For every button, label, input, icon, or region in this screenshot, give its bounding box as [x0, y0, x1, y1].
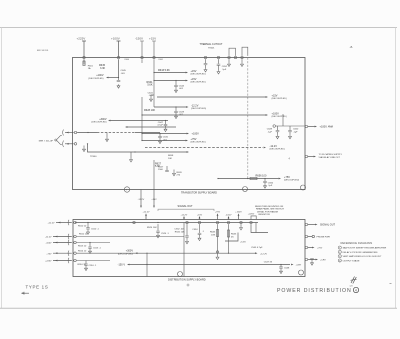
svg-text:POWER DISTRIBUTION: POWER DISTRIBUTION	[277, 288, 352, 294]
circled node on bottom edge	[243, 187, 248, 192]
svg-text:1500: 1500	[158, 169, 164, 171]
svg-text:C649: C649	[267, 129, 273, 131]
svg-text:TRANSISTOR SUPPLY BOARD: TRANSISTOR SUPPLY BOARD	[181, 191, 217, 194]
svg-text:C631: C631	[163, 137, 169, 139]
dashed feeder line (vertical)	[247, 58, 249, 179]
wire +100V row 5 (long)	[142, 114, 266, 116]
svg-text:R524 10K: R524 10K	[147, 227, 157, 229]
svg-text:+12.2V: +12.2V	[260, 253, 268, 255]
connector pin circle	[55, 139, 57, 141]
svg-text:C545 4.7µF: C545 4.7µF	[251, 247, 263, 249]
svg-text:+300V: +300V	[126, 250, 134, 253]
svg-text:+12.2V: +12.2V	[143, 212, 151, 214]
resistor R656	[250, 177, 257, 179]
svg-text:R510 10: R510 10	[78, 226, 87, 228]
svg-text:+75V: +75V	[46, 253, 52, 255]
svg-text:+75V: +75V	[317, 248, 323, 250]
svg-text:10K: 10K	[168, 158, 172, 160]
junction on -150V rail	[141, 56, 144, 59]
group bracket line	[158, 209, 214, 211]
svg-text:+150V: +150V	[235, 212, 242, 214]
svg-text:(DECOUPLED): (DECOUPLED)	[191, 74, 206, 76]
capacitor C645	[118, 77, 119, 78]
svg-text:+5.6V: +5.6V	[240, 242, 246, 244]
circled node at lower box corner	[299, 270, 304, 275]
wire arrow to CRT	[291, 264, 293, 266]
page left edge	[1, 28, 3, 309]
bracket B	[62, 141, 65, 148]
svg-text:+CRT: +CRT	[320, 260, 326, 262]
wire +15V row 2	[154, 80, 186, 82]
wire rail into lower stubs	[153, 160, 155, 190]
svg-text:3.3K: 3.3K	[100, 67, 105, 70]
ground stub on rail 2	[240, 224, 242, 226]
capacitor C532 with ground	[186, 224, 188, 236]
wire into pin B	[65, 143, 74, 145]
svg-text:+225V: +225V	[248, 214, 255, 216]
pin +225V on lower left edge	[53, 260, 72, 262]
pin A	[74, 131, 77, 134]
ground stub B	[241, 59, 243, 62]
wire +300V row 6 (to left)	[110, 120, 168, 122]
svg-text:R641: R641	[159, 59, 164, 61]
svg-text:R543: R543	[231, 234, 237, 236]
wire bus B	[88, 144, 188, 152]
svg-text:-8-: -8-	[350, 45, 354, 49]
svg-text:OUTPUT STAGE: OUTPUT STAGE	[343, 259, 360, 262]
svg-text:C524 .1: C524 .1	[161, 233, 169, 235]
svg-text:+100V, 4MA: +100V, 4MA	[320, 126, 334, 129]
svg-text:C656: C656	[268, 182, 274, 184]
pin probe power on lower right edge	[305, 235, 308, 238]
svg-text:+15V: +15V	[197, 214, 203, 216]
jumper loop 1	[229, 48, 236, 56]
svg-text:+15V: +15V	[151, 199, 157, 201]
svg-text:C534: C534	[192, 229, 198, 231]
svg-text:R656 100: R656 100	[256, 175, 267, 178]
capacitor C516 with ground	[77, 260, 110, 262]
svg-text:RESISTORS MOUNTED ON: RESISTORS MOUNTED ON	[255, 206, 284, 208]
note item 3	[338, 255, 341, 258]
right margin tick	[390, 283, 392, 285]
svg-text:(DECOUPLED): (DECOUPLED)	[91, 122, 106, 124]
svg-text:VIA DELAY LINE CKT: VIA DELAY LINE CKT	[319, 156, 341, 159]
svg-text:TK601: TK601	[208, 48, 215, 50]
svg-text:+12.2V: +12.2V	[48, 223, 56, 225]
svg-text:DETAIL FOR RANGE: DETAIL FOR RANGE	[257, 210, 279, 213]
node -150V supply rail	[140, 41, 144, 141]
capacitor C534 with ground	[199, 224, 201, 233]
svg-text:EFF SN 101: EFF SN 101	[37, 50, 49, 52]
wire stub +15V below edge	[153, 190, 155, 207]
ground symbol on bottom edge (circled)	[124, 187, 129, 192]
ground cluster inner left	[83, 146, 85, 148]
note item 1	[338, 246, 341, 249]
svg-text:R532 10K: R532 10K	[175, 231, 185, 233]
svg-text:R512 10: R512 10	[79, 234, 88, 236]
capacitor C644 with ground	[175, 80, 176, 81]
pin B	[74, 143, 77, 146]
svg-text:R628 10K: R628 10K	[144, 109, 155, 112]
capacitor C631 with ground	[159, 133, 160, 134]
svg-text:R658: R658	[168, 155, 174, 157]
wire +15V row 1	[154, 72, 186, 74]
capacitor C647 with ground	[165, 120, 166, 121]
resistor R512 wire	[77, 236, 184, 238]
wire R656 row	[218, 178, 279, 180]
pin -100V on lower left edge	[53, 242, 72, 244]
pin SIGNAL OUT on lower right edge	[305, 223, 308, 226]
wire +12.2V mid row	[137, 252, 256, 254]
svg-text:-150 V: -150 V	[118, 264, 126, 267]
svg-text:(DECOUPLED): (DECOUPLED)	[118, 253, 133, 255]
junction on bus A	[87, 132, 88, 133]
svg-text:THERMAL CUTOUT: THERMAL CUTOUT	[200, 43, 223, 46]
pin +100V on right edge	[305, 125, 308, 128]
capacitor C651 with ground	[205, 59, 207, 63]
bracket A	[62, 130, 65, 136]
svg-text:.1µF: .1µF	[268, 185, 273, 187]
svg-text:C547 33: C547 33	[264, 262, 273, 264]
ground near C627	[173, 170, 175, 172]
svg-text:REFERENCE DIAGRAMS: REFERENCE DIAGRAMS	[341, 241, 373, 245]
svg-text:C647: C647	[158, 122, 164, 124]
svg-text:+100V: +100V	[111, 37, 120, 41]
svg-text:+75V: +75V	[284, 176, 290, 179]
resistor R545 with ground	[217, 224, 219, 255]
svg-text:F601: F601	[88, 65, 94, 67]
svg-text:+300V: +300V	[99, 118, 107, 121]
capacitor C548 with ground	[280, 264, 281, 265]
pin to floating supply on right edge	[305, 155, 308, 158]
wire -12.2V row 4	[154, 106, 187, 108]
svg-text:SIGNAL OUT: SIGNAL OUT	[178, 205, 194, 208]
wire stub -12.2V below edge	[140, 190, 142, 207]
wire bus A	[77, 132, 97, 134]
svg-text:+15V: +15V	[149, 37, 156, 41]
svg-text:R513 10: R513 10	[78, 246, 87, 248]
svg-text:C627: C627	[158, 167, 164, 169]
jumper loop on lower box edge	[251, 216, 256, 219]
svg-text:R640: R640	[125, 59, 130, 61]
svg-text:-100V: -100V	[226, 214, 232, 216]
svg-text:(DECOUPLED): (DECOUPLED)	[270, 149, 285, 151]
svg-text:+100V: +100V	[192, 133, 200, 136]
wire pin to row	[77, 252, 137, 254]
svg-text:-12.2V: -12.2V	[138, 199, 145, 201]
wire +75V row 9	[142, 140, 186, 142]
svg-text:(DECOUPLED): (DECOUPLED)	[272, 116, 287, 118]
wire bus A dashed section	[97, 132, 135, 134]
pin +12.2V on lower left edge	[56, 222, 72, 224]
wire vertical V1	[146, 253, 148, 276]
svg-text:+15V: +15V	[191, 78, 197, 81]
page right edge	[395, 28, 397, 309]
pin -12.2V on lower left edge	[53, 236, 72, 238]
note item 4	[338, 259, 341, 262]
svg-text:-12.2V: -12.2V	[270, 145, 278, 148]
wire branch vertical	[255, 223, 257, 233]
wire +15V row 3 (long)	[157, 96, 266, 98]
svg-text:+100V: +100V	[272, 112, 280, 115]
svg-text:VERT. AMPLIFIER & FLOOD GUN: VERT. AMPLIFIER & FLOOD GUN CKT	[343, 255, 383, 258]
svg-text:C516 .1: C516 .1	[89, 265, 97, 267]
svg-text:-150V: -150V	[135, 37, 143, 41]
wire +100V row 8	[142, 133, 187, 135]
note item 2	[338, 250, 341, 253]
wire vertical V2	[183, 223, 185, 277]
svg-text:C513 .1: C513 .1	[93, 248, 101, 250]
svg-text:+100V: +100V	[96, 74, 104, 77]
svg-text:+75V: +75V	[215, 212, 221, 214]
junction mark below lower box	[187, 284, 190, 287]
wire into pin A	[65, 132, 74, 134]
ground on bus A	[106, 133, 108, 138]
pin +75V on lower right edge	[305, 246, 308, 249]
circled node at box corner	[301, 185, 306, 190]
svg-text:+225V: +225V	[45, 261, 52, 263]
capacitor C652 with ground	[218, 59, 220, 64]
ground below C645	[117, 84, 120, 88]
svg-text:+15V: +15V	[272, 94, 278, 97]
svg-text:-12.2V: -12.2V	[191, 104, 199, 107]
svg-text:PROBE PWR: PROBE PWR	[317, 237, 331, 239]
title circled number	[353, 287, 358, 292]
wire main rail lower box	[75, 222, 258, 224]
svg-text:(DECOUPLED): (DECOUPLED)	[272, 98, 287, 100]
junction on bus B	[134, 151, 135, 152]
pin +75V on lower left edge	[53, 252, 72, 254]
svg-text:5.6K: 5.6K	[147, 83, 152, 86]
svg-text:+225V: +225V	[77, 37, 86, 41]
svg-text:-12.2V: -12.2V	[45, 237, 52, 239]
svg-text:.1µF: .1µF	[293, 131, 298, 133]
svg-text:(DECOUPLED): (DECOUPLED)	[284, 180, 299, 182]
svg-text:+CRT: +CRT	[296, 265, 302, 267]
svg-text:SIGNAL OUT: SIGNAL OUT	[320, 224, 336, 227]
jumper loop 2	[242, 47, 248, 56]
junction on +225V rail	[83, 56, 86, 59]
svg-text:C650: C650	[293, 129, 299, 131]
node +15V supply rail	[152, 41, 156, 107]
svg-text:C652: C652	[222, 66, 228, 68]
svg-text:1.8K: 1.8K	[211, 234, 216, 236]
junction on +15V rail	[153, 56, 156, 59]
svg-text:C644: C644	[179, 85, 185, 87]
svg-text:(DECOUPLED): (DECOUPLED)	[191, 82, 206, 84]
junction rings on rail	[133, 221, 136, 224]
svg-text:4: 4	[355, 289, 357, 293]
svg-text:4.7µF: 4.7µF	[157, 125, 163, 127]
svg-text:TP660: TP660	[90, 156, 97, 158]
svg-text:TYPE 1S: TYPE 1S	[26, 285, 49, 290]
fuse F601	[83, 61, 85, 66]
svg-text:C532 .001: C532 .001	[174, 229, 185, 231]
ground on bus B	[130, 152, 132, 158]
svg-text:DELAY & PICKOFF GENERATORS: DELAY & PICKOFF GENERATORS	[343, 251, 378, 254]
svg-text:SAWTOOTH SWEEP TRIGGER AMPL: SAWTOOTH SWEEP TRIGGER AMPLIFIER	[343, 247, 387, 250]
capacitor C649 with ground	[282, 115, 284, 126]
svg-text:C548: C548	[284, 268, 290, 270]
svg-text:.1µF: .1µF	[222, 69, 227, 71]
svg-text:C510 .1: C510 .1	[91, 229, 99, 231]
svg-text:+15V: +15V	[191, 70, 197, 73]
wire L link	[225, 233, 238, 242]
svg-text:(DECOUPLED): (DECOUPLED)	[191, 142, 206, 144]
node +100V supply rail	[117, 41, 121, 78]
wire +100V decoupled to left	[108, 77, 119, 79]
svg-text:RESISTOR: RESISTOR	[259, 214, 271, 216]
svg-text:REAR PANEL SEE SWITCH: REAR PANEL SEE SWITCH	[256, 208, 284, 211]
wire -12.2V row 10 (dashed long)	[145, 147, 263, 149]
svg-text:.1µF: .1µF	[268, 131, 273, 133]
resistor R543	[228, 224, 230, 253]
ground stub A	[228, 59, 230, 62]
junction on +100V rail	[117, 56, 120, 59]
circled node on lower bottom edge	[178, 272, 183, 277]
svg-text:DISTRIBUTION SUPPLY BOARD: DISTRIBUTION SUPPLY BOARD	[168, 278, 206, 281]
wire row 7 (to left)	[127, 126, 176, 128]
svg-text:R514 10: R514 10	[78, 250, 87, 252]
svg-text:C645: C645	[121, 70, 127, 72]
svg-text:SER # 101-UP: SER # 101-UP	[39, 140, 54, 142]
svg-text:(DECOUPLED): (DECOUPLED)	[191, 108, 206, 110]
wire fork to pin A	[57, 136, 62, 140]
wire bus A end section	[135, 132, 160, 134]
wire fork to pin B	[57, 141, 62, 145]
svg-text:-100V: -100V	[46, 243, 52, 245]
svg-text:-12.2V: -12.2V	[181, 214, 188, 216]
page bottom edge	[0, 307, 397, 309]
pin +CRT on lower right edge	[305, 258, 308, 261]
svg-text:C629: C629	[179, 111, 185, 113]
page top edge	[0, 27, 397, 29]
revision mark	[351, 277, 357, 284]
lower distribution board outline	[73, 220, 305, 277]
node +225V supply rail	[82, 41, 86, 65]
junction circles on top edge	[204, 56, 207, 59]
capacitor C524 with ground	[157, 224, 159, 231]
capacitor C629 with ground	[175, 106, 176, 107]
svg-text:(DECOUPLED): (DECOUPLED)	[88, 78, 103, 80]
main distribution board outline (upper box)	[73, 58, 306, 190]
resistor R513 and capacitor C513 with ground	[77, 242, 110, 244]
wire branch right	[251, 224, 268, 232]
small arrow mark	[22, 292, 30, 295]
svg-text:+75V: +75V	[191, 138, 197, 141]
svg-text:TO FLOATING SUPPLY: TO FLOATING SUPPLY	[319, 153, 343, 156]
svg-text:R643 5.6K: R643 5.6K	[158, 69, 170, 72]
capacitor C650 with ground	[289, 126, 291, 130]
wire -150V mid row	[129, 264, 290, 266]
capacitor C656 with ground	[264, 178, 265, 179]
svg-text:R545: R545	[210, 232, 216, 234]
